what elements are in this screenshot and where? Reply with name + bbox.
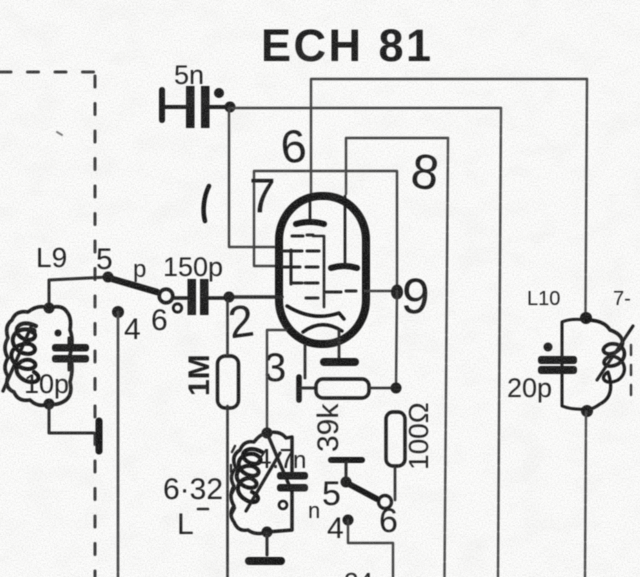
L2 core dashes	[231, 446, 235, 514]
wire rail2 from 5n junction to drop	[229, 107, 501, 109]
switch S1 moving contact circle	[159, 289, 173, 303]
resistor R2 39k right lead	[369, 387, 396, 390]
resistor R3 100ohm body	[386, 412, 405, 466]
L10 trimmer arrow	[597, 326, 633, 380]
capacitor C2 150p	[173, 279, 229, 315]
wire pin2 grid feed	[229, 295, 282, 298]
node pin4 left dot	[112, 306, 124, 318]
wire L9 bottom to chassis	[49, 404, 94, 433]
L2 trimmer arrow	[246, 453, 280, 511]
switch S2 pivot dot	[341, 477, 352, 488]
inductor L9 coil loops	[11, 323, 38, 382]
tube U1 triode anode plate	[331, 196, 357, 268]
switch S2 stem	[345, 462, 348, 480]
node L2 bottom	[262, 527, 273, 538]
switch S1 pivot dot	[103, 272, 114, 283]
wire 100ohm bottom lead	[394, 466, 397, 500]
L2 small circle contact	[279, 501, 287, 509]
switch S1 lever	[109, 278, 157, 292]
wire L2 bottom to ground	[266, 532, 269, 555]
switch S2 lever	[347, 483, 377, 499]
L9 trimmer arrow	[3, 327, 31, 391]
wire drop3	[445, 138, 449, 577]
ground bar bottom center	[249, 557, 281, 565]
tube U1 grid dashes	[292, 235, 356, 298]
node pin9 junction	[391, 285, 403, 300]
wire L9 top to switch	[49, 277, 108, 308]
wire pin7 box over tube to pin9 node	[254, 171, 397, 288]
tube U1 hexode grid bracket	[282, 250, 302, 284]
node L9 top	[44, 303, 55, 314]
inductor L10 tank 20p: top node	[580, 312, 592, 324]
wire tube bottom to 39k left terminal	[304, 345, 307, 378]
switch S2 fixed contact bar	[331, 457, 362, 463]
wire drop2	[498, 108, 501, 577]
resistor R2 39k left terminal bar	[296, 377, 302, 400]
tube U1 envelope ECH81	[279, 196, 366, 344]
label pin 1	[204, 186, 209, 221]
speck	[57, 132, 62, 135]
node L2 top	[262, 428, 273, 439]
tube U1 heptode anode plate	[296, 196, 324, 224]
inductor L2 4.7n tank outline	[231, 432, 292, 533]
wire pin4 left to bottom	[117, 312, 120, 577]
ground cathode chassis bar	[324, 358, 355, 366]
inductor L2 coil loops	[237, 449, 262, 502]
L10 core dashes	[630, 345, 632, 395]
wire L10 bottom to page bottom	[585, 411, 586, 577]
tube U1 triode grid line	[313, 236, 324, 307]
wire cathode to ground	[338, 330, 341, 358]
wire rail3 triode anode pin8 box	[346, 138, 448, 194]
capacitor C3 4.7n plates	[277, 472, 308, 492]
tube U1 cathode arcs	[287, 306, 344, 332]
wire pin4 right to bottom	[348, 520, 393, 577]
capacitor C 5n	[162, 86, 228, 128]
capacitor C1 10p plates	[52, 338, 89, 370]
ground chassis bar left	[96, 421, 103, 451]
switch S2 moving contact circle	[379, 496, 392, 509]
L10 tank left branch outline	[562, 319, 587, 409]
wire pin9 from tube to node	[365, 290, 397, 292]
wire pin3 from tube to 4.7n tank	[267, 330, 286, 430]
wire 1M leads	[226, 297, 229, 577]
node L9 bottom	[44, 399, 55, 410]
shield dashed box	[0, 72, 95, 577]
wire pin9 node down to 39k node	[396, 291, 397, 388]
node pin4 right dot	[343, 515, 354, 526]
node junction 39k/100ohm	[391, 383, 402, 394]
inductor L9 tank outline	[5, 307, 72, 406]
C4 tap dot	[544, 343, 553, 352]
resistor R1 1M body	[218, 356, 239, 408]
resistor R2 39k body	[301, 387, 316, 390]
wire top rail from tube anode pin6 to right drop	[311, 79, 587, 194]
capacitor C4 20p plates	[538, 356, 577, 374]
wire right drop to 20p tank	[586, 79, 588, 315]
inductor L10 coil loops	[586, 320, 624, 409]
node junction 150p/1M	[224, 292, 235, 303]
wire pin1 from 5n junction down into tube	[229, 108, 282, 247]
node junction 5n/line2	[225, 102, 236, 113]
node L10 bottom	[581, 405, 593, 417]
